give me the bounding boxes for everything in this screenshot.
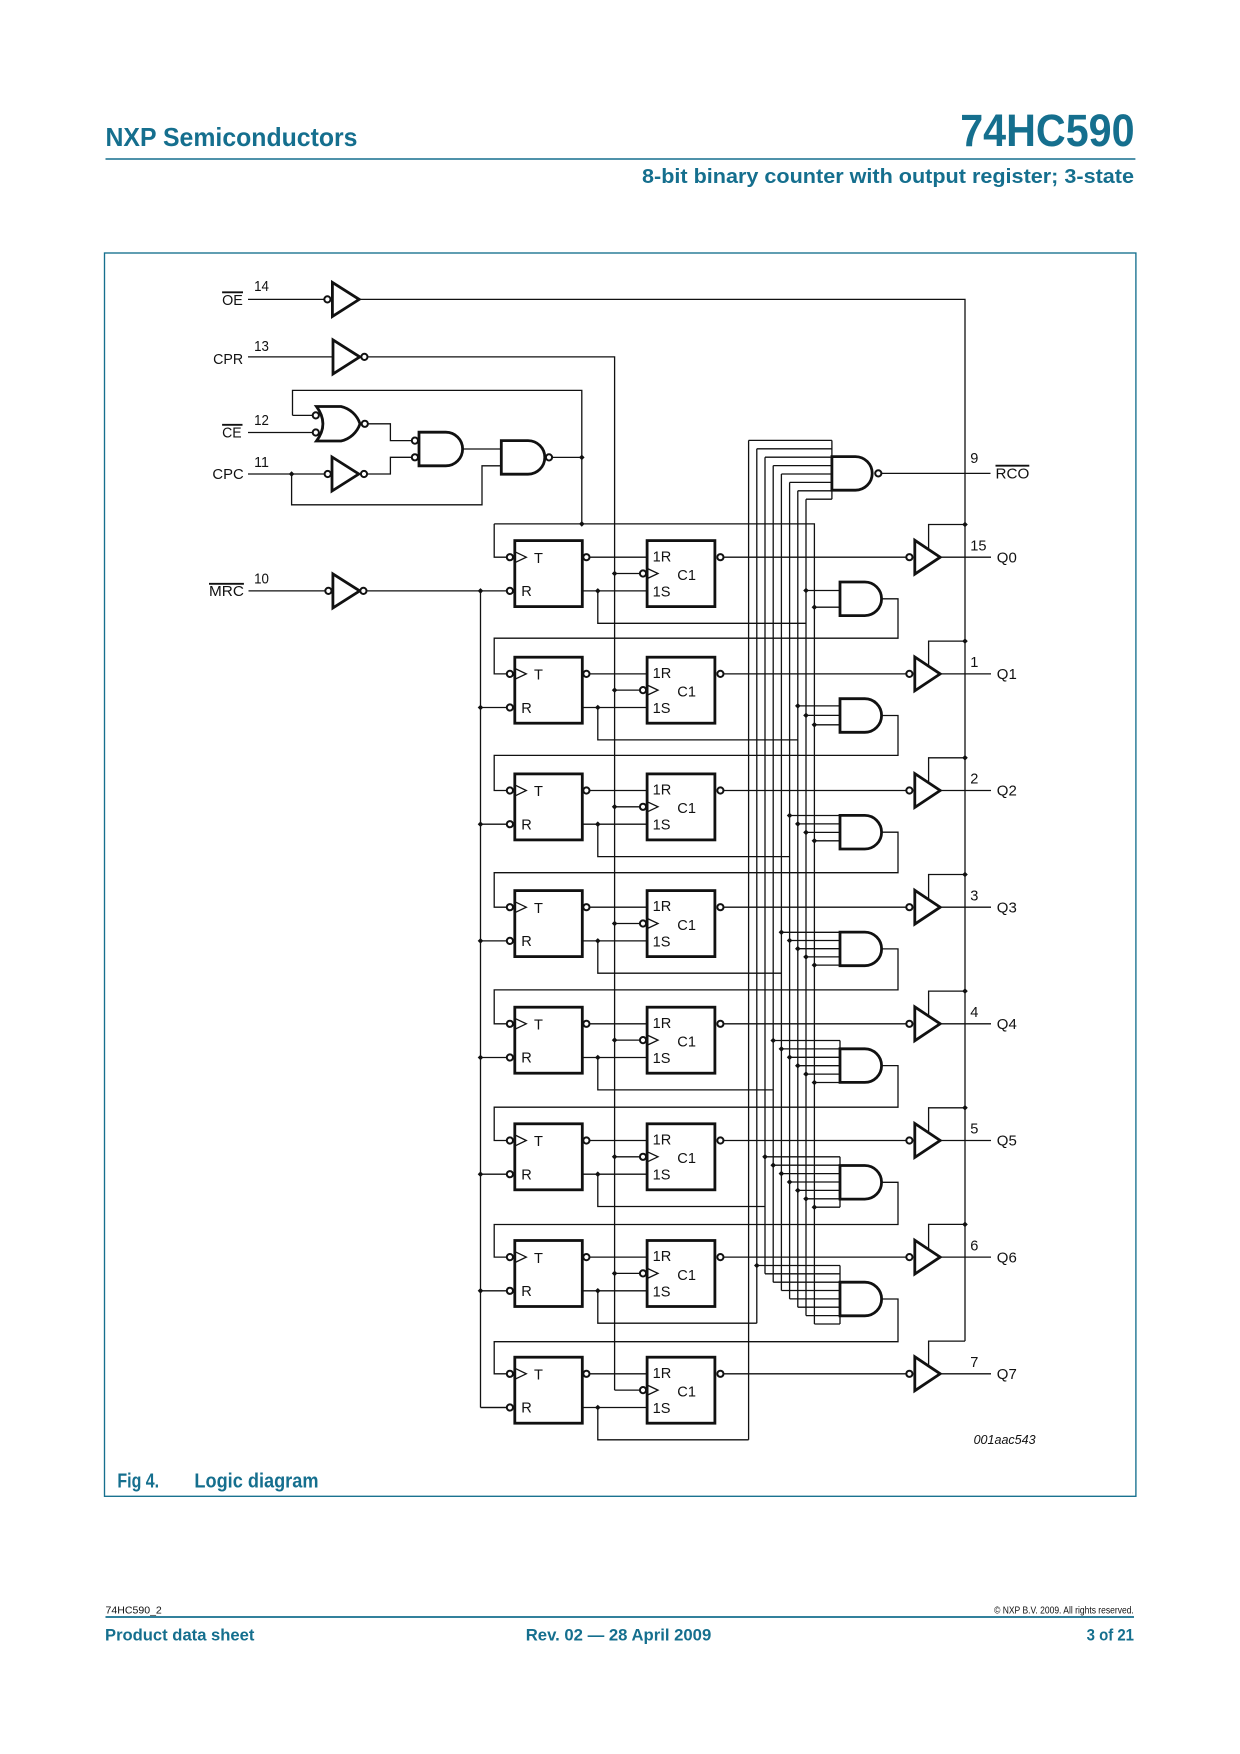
- svg-text:4: 4: [970, 1005, 978, 1021]
- latch L3: [647, 891, 715, 957]
- wire OE input: [248, 298, 324, 300]
- wire FF1 Q to latch 1S: [582, 707, 647, 709]
- wire AND3 output to FF4 T: [494, 949, 898, 1024]
- latch L7 clock wedge: [647, 1385, 658, 1395]
- latch L5 clock bubble: [640, 1154, 646, 1160]
- wire AND0 output to FF1 T: [494, 599, 898, 674]
- latch L4: [647, 1007, 715, 1073]
- wire FF4 Q to bus Q4: [598, 1058, 773, 1090]
- flip-flop FF3: [515, 891, 583, 957]
- output buffer B1 input bubble: [906, 671, 912, 677]
- FF3 clock wedge: [515, 902, 526, 913]
- bus Q2 vertical: [789, 482, 791, 1299]
- junction Q1 bus AND1: [795, 703, 801, 709]
- wire MRC rail to FF3 R: [481, 940, 507, 942]
- flip-flop FF4: [515, 1007, 583, 1073]
- latch L4 clock wedge: [647, 1035, 658, 1045]
- wire MRC input: [249, 590, 325, 592]
- wire AND2 input Q0: [806, 831, 840, 833]
- latch L0: [647, 541, 715, 607]
- svg-text:C1: C1: [677, 685, 696, 701]
- FF2 Qbar output bubble: [583, 787, 589, 793]
- latch L7: [647, 1357, 715, 1423]
- FF4 Qbar output bubble: [583, 1021, 589, 1027]
- wire Q6 to RCO gate: [757, 448, 832, 450]
- wire AND4 input CLK: [814, 1082, 840, 1084]
- svg-text:Q0: Q0: [997, 550, 1017, 566]
- wire gated clock T0 line: [494, 524, 814, 1324]
- svg-text:11: 11: [254, 455, 269, 471]
- latch L1 output bubble: [717, 671, 723, 677]
- wire AND5 input Q3: [781, 1173, 840, 1175]
- junction CLK bus AND3: [812, 962, 818, 968]
- svg-text:CPR: CPR: [213, 352, 243, 368]
- junction Q1 bus AND3: [795, 946, 801, 952]
- latch L3 clock wedge: [647, 919, 658, 929]
- wire MRC rail to FF4 R: [481, 1057, 507, 1059]
- svg-text:T: T: [534, 901, 543, 917]
- wire CPR rail to L0 clock: [615, 573, 640, 575]
- wire MRC rail to FF5 R: [481, 1173, 507, 1175]
- wire FF7 Qbar to latch 1R: [590, 1373, 647, 1375]
- svg-text:C1: C1: [677, 801, 696, 817]
- FF7 T input bubble: [507, 1371, 513, 1377]
- FF0 T input bubble: [507, 554, 513, 560]
- RCO overbar: [996, 465, 1030, 467]
- junction FF6 Q: [595, 1288, 601, 1294]
- wire CPR rail to L2 clock: [615, 806, 640, 808]
- latch L5 output bubble: [717, 1137, 723, 1143]
- wire AND6 input Q5: [765, 1273, 840, 1275]
- inverter CPC input bubble: [325, 471, 331, 477]
- latch L0 clock wedge: [647, 569, 658, 579]
- FF1 T input bubble: [507, 671, 513, 677]
- nor gate U1 input bubble B: [313, 429, 319, 435]
- wire AND3 input Q3: [781, 931, 840, 933]
- wire FF2 Q to latch 1S: [582, 823, 647, 825]
- junction Q1 bus AND4: [795, 1063, 801, 1069]
- svg-text:T: T: [534, 551, 543, 567]
- wire CPC inverter out to AND: [368, 457, 412, 474]
- latch L4 clock bubble: [640, 1037, 646, 1043]
- MRC overbar: [209, 583, 244, 585]
- svg-text:1S: 1S: [653, 934, 671, 950]
- wire Q2 to RCO gate: [790, 481, 832, 483]
- wire Q4 to RCO gate: [773, 465, 832, 467]
- svg-text:CE: CE: [222, 425, 242, 441]
- svg-text:T: T: [534, 1134, 543, 1150]
- junction T0 line: [579, 521, 585, 527]
- carry AND5 input manifold: [839, 1157, 841, 1207]
- and gate U2 input bubble A: [412, 438, 418, 444]
- junction MRC rail top: [478, 588, 484, 594]
- svg-text:1: 1: [970, 655, 978, 671]
- FF0 R input bubble: [507, 588, 513, 594]
- output buffer B0 input bubble: [906, 554, 912, 560]
- FF0 clock wedge: [515, 552, 526, 563]
- wire FF5 Q to latch 1S: [582, 1173, 647, 1175]
- junction CLK bus AND2: [812, 838, 818, 844]
- wire FF6 Q to bus Q6: [598, 1291, 757, 1323]
- FF2 R input bubble: [507, 821, 513, 827]
- wire OE enable to buffer B4: [929, 991, 965, 1016]
- flip-flop FF7: [515, 1357, 583, 1423]
- bus Q7 vertical: [748, 440, 750, 1439]
- svg-text:12: 12: [254, 413, 269, 429]
- svg-text:1S: 1S: [653, 584, 671, 600]
- wire latch L7 to output buffer: [724, 1373, 906, 1375]
- wire AND0 input Q0: [806, 590, 840, 592]
- svg-text:R: R: [521, 1167, 532, 1183]
- wire FF4 Q to latch 1S: [582, 1057, 647, 1059]
- svg-text:© NXP B.V. 2009. All rights re: © NXP B.V. 2009. All rights reserved.: [994, 1605, 1134, 1617]
- output buffer B2: [915, 774, 940, 808]
- wire CPR rail to L3 clock: [615, 923, 640, 925]
- wire latch L4 to output buffer: [724, 1023, 906, 1025]
- and gate AND1: [840, 699, 882, 733]
- latch L7 output bubble: [717, 1371, 723, 1377]
- wire latch L1 to output buffer: [724, 673, 906, 675]
- FF5 Qbar output bubble: [583, 1137, 589, 1143]
- inverter MRC input bubble: [325, 588, 331, 594]
- junction FF2 Q: [595, 821, 601, 827]
- junction MRC rail FF6 R: [478, 1288, 484, 1294]
- wire AND5 input Q5: [765, 1156, 840, 1158]
- FF2 clock wedge: [515, 785, 526, 796]
- junction CPR rail L6: [612, 1271, 618, 1277]
- wire OE enable to buffer B6: [929, 1224, 965, 1249]
- svg-text:T: T: [534, 1018, 543, 1034]
- wire AND1 input Q0: [806, 714, 840, 716]
- wire OE buffer to enable rail: [359, 299, 965, 1341]
- wire AND4 input Q3: [781, 1048, 840, 1050]
- and gate U2: [419, 432, 463, 466]
- output buffer B5: [915, 1124, 940, 1158]
- wire OE enable to buffer B5: [929, 1108, 965, 1132]
- svg-text:OE: OE: [222, 293, 243, 309]
- junction MRC rail FF2 R: [478, 821, 484, 827]
- wire Q5 to RCO gate: [765, 456, 832, 458]
- wire AND4 input Q1: [798, 1065, 840, 1067]
- latch L2: [647, 774, 715, 840]
- wire AND5 output to FF6 T: [494, 1182, 898, 1257]
- wire clock node down: [581, 457, 583, 524]
- junction FF3 Q: [595, 938, 601, 944]
- junction CPR rail L1: [612, 687, 618, 693]
- output buffer B3: [915, 890, 940, 924]
- junction Q3 bus AND4: [779, 1046, 785, 1052]
- latch L5: [647, 1124, 715, 1190]
- svg-text:CPC: CPC: [212, 467, 243, 483]
- wire AND2 input Q2: [790, 815, 840, 817]
- wire Q3 output: [940, 906, 991, 908]
- wire latch L0 to output buffer: [724, 556, 906, 558]
- and gate U2 input bubble B: [412, 454, 418, 460]
- wire MRC rail to FF1 R: [481, 707, 507, 709]
- and gate AND5: [840, 1166, 882, 1200]
- output buffer B3 input bubble: [906, 904, 912, 910]
- svg-text:C1: C1: [677, 918, 696, 934]
- svg-text:R: R: [521, 1284, 532, 1300]
- junction Q2 bus AND2: [787, 813, 793, 819]
- wire Q4 output: [940, 1023, 991, 1025]
- inverter CPR output bubble: [361, 354, 367, 360]
- wire MRC rail to FF7 R: [481, 1407, 507, 1409]
- wire CPR rail to L6 clock: [615, 1272, 640, 1274]
- junction CPR rail L0: [612, 571, 618, 577]
- junction Q1 bus AND2: [795, 821, 801, 827]
- buffer OE: [332, 282, 359, 316]
- svg-text:8-bit binary counter with outp: 8-bit binary counter with output registe…: [642, 166, 1134, 188]
- junction Q0 bus AND0: [803, 588, 809, 594]
- bus Q4 vertical: [772, 466, 774, 1283]
- svg-text:1R: 1R: [653, 1366, 672, 1382]
- wire FF2 Q to bus Q2: [598, 824, 790, 856]
- FF5 T input bubble: [507, 1137, 513, 1143]
- wire NAND out to clock node: [553, 456, 582, 458]
- wire CPR rail to L4 clock: [615, 1039, 640, 1041]
- nor gate U1 input bubble A: [313, 412, 319, 418]
- svg-text:9: 9: [970, 451, 978, 467]
- junction CPR rail L5: [612, 1154, 618, 1160]
- FF1 clock wedge: [515, 669, 526, 680]
- wire RCO output: [882, 472, 991, 474]
- output buffer B6 input bubble: [906, 1254, 912, 1260]
- and gate AND3: [840, 932, 882, 966]
- svg-text:14: 14: [254, 279, 269, 295]
- footer rule: [106, 1616, 1135, 1618]
- and gate AND2: [840, 815, 882, 849]
- wire FF3 Qbar to latch 1R: [590, 906, 647, 908]
- FF3 Qbar output bubble: [583, 904, 589, 910]
- junction OE rail B4: [962, 988, 968, 994]
- FF3 T input bubble: [507, 904, 513, 910]
- FF4 T input bubble: [507, 1021, 513, 1027]
- junction Q3 bus AND3: [779, 930, 785, 936]
- svg-text:T: T: [534, 1251, 543, 1267]
- svg-text:R: R: [521, 584, 532, 600]
- wire NOR out to AND: [368, 424, 411, 441]
- latch L1 clock wedge: [647, 685, 658, 695]
- wire OE enable to buffer B1: [929, 641, 965, 666]
- svg-text:RCO: RCO: [996, 467, 1030, 483]
- junction CPC: [289, 471, 295, 477]
- wire AND6 input CLK: [814, 1323, 840, 1325]
- wire FF6 Qbar to latch 1R: [590, 1256, 647, 1258]
- svg-text:74HC590: 74HC590: [960, 105, 1134, 156]
- wire AND6 input Q6: [757, 1265, 840, 1267]
- latch L0 output bubble: [717, 554, 723, 560]
- wire Q0 to RCO gate: [806, 498, 832, 500]
- junction CLK bus AND0: [812, 604, 818, 610]
- svg-text:C1: C1: [677, 1268, 696, 1284]
- junction Q6 bus AND6: [754, 1263, 760, 1269]
- junction Q0 bus AND4: [803, 1071, 809, 1077]
- flip-flop FF2: [515, 774, 583, 840]
- svg-text:Q5: Q5: [997, 1134, 1017, 1150]
- wire feedback to NOR: [293, 390, 582, 457]
- svg-text:C1: C1: [677, 1035, 696, 1051]
- nand gate U4 output bubble: [875, 470, 881, 476]
- wire Q5 output: [940, 1140, 991, 1142]
- nor gate U1 output bubble: [362, 421, 368, 427]
- svg-text:T: T: [534, 784, 543, 800]
- wire AND2 input Q1: [798, 823, 840, 825]
- svg-text:Product data sheet: Product data sheet: [105, 1625, 255, 1644]
- wire FF2 Qbar to latch 1R: [590, 790, 647, 792]
- svg-text:1S: 1S: [653, 818, 671, 834]
- wire AND5 input Q2: [790, 1181, 840, 1183]
- junction CPR rail L3: [612, 921, 618, 927]
- bus Q3 vertical: [780, 474, 782, 1291]
- wire AND3 input Q2: [790, 940, 840, 942]
- wire Q6 output: [940, 1256, 991, 1258]
- svg-text:T: T: [534, 1368, 543, 1384]
- svg-text:1R: 1R: [653, 1133, 672, 1149]
- wire AND4 input Q0: [806, 1073, 840, 1075]
- FF2 T input bubble: [507, 787, 513, 793]
- wire Q2 output: [940, 790, 991, 792]
- wire AND3 input CLK: [814, 964, 840, 966]
- wire CPR rail to L7 clock: [615, 1389, 640, 1391]
- svg-text:Q1: Q1: [997, 667, 1017, 683]
- svg-text:T: T: [534, 668, 543, 684]
- svg-text:1S: 1S: [653, 701, 671, 717]
- carry AND4 input manifold: [839, 1041, 841, 1083]
- svg-text:1R: 1R: [653, 1249, 672, 1265]
- wire FF1 Q to bus Q1: [598, 708, 798, 740]
- junction Q0 bus AND3: [803, 954, 809, 960]
- wire CPR rail to L5 clock: [615, 1156, 640, 1158]
- wire AND6 input Q0: [806, 1315, 840, 1317]
- svg-text:001aac543: 001aac543: [974, 1432, 1037, 1447]
- wire NOR feedback upper input: [293, 414, 313, 416]
- wire OE enable to buffer B7: [929, 1341, 965, 1366]
- svg-text:74HC590_2: 74HC590_2: [106, 1605, 162, 1617]
- wire T0 drop to FF0: [494, 524, 506, 557]
- svg-text:1S: 1S: [653, 1284, 671, 1300]
- latch L0 clock bubble: [640, 570, 646, 576]
- wire CPC input: [248, 473, 324, 475]
- wire AND1 output to FF2 T: [494, 716, 898, 791]
- wire AND1 input CLK: [814, 724, 840, 726]
- wire Q7 output: [940, 1373, 991, 1375]
- output buffer B5 input bubble: [906, 1137, 912, 1143]
- wire AND2 input CLK: [814, 840, 840, 842]
- junction Q1 bus AND5: [795, 1188, 801, 1194]
- junction FF1 Q: [595, 705, 601, 711]
- svg-text:1R: 1R: [653, 666, 672, 682]
- svg-text:3: 3: [970, 888, 978, 904]
- junction OE rail B3: [962, 872, 968, 878]
- nand gate U3: [501, 441, 545, 475]
- svg-text:7: 7: [970, 1355, 978, 1371]
- wire FF0 Q to bus Q0: [598, 591, 806, 623]
- FF4 clock wedge: [515, 1018, 526, 1029]
- bus Q0 vertical: [805, 499, 807, 1315]
- FF3 R input bubble: [507, 938, 513, 944]
- wire AND0 input CLK: [814, 606, 840, 608]
- junction Q0 bus AND1: [803, 713, 809, 719]
- wire latch L2 to output buffer: [724, 790, 906, 792]
- svg-text:13: 13: [254, 339, 269, 355]
- wire AND4 input Q2: [790, 1056, 840, 1058]
- wire AND6 input Q3: [781, 1290, 840, 1292]
- svg-text:Q2: Q2: [997, 784, 1017, 800]
- wire AND6 input Q4: [773, 1281, 840, 1283]
- wire AND4 output to FF5 T: [494, 1066, 898, 1141]
- junction Q2 bus AND4: [787, 1055, 793, 1061]
- wire MRC rail to FF6 R: [481, 1290, 507, 1292]
- FF7 R input bubble: [507, 1404, 513, 1410]
- FF0 Qbar output bubble: [583, 554, 589, 560]
- wire MRC rail to FF7 R: [481, 1407, 507, 1409]
- svg-text:1S: 1S: [653, 1401, 671, 1417]
- junction OE rail B2: [962, 755, 968, 761]
- junction CPR rail L2: [612, 804, 618, 810]
- wire CPR input: [248, 356, 333, 358]
- junction Q3 bus AND5: [779, 1171, 785, 1177]
- svg-text:1R: 1R: [653, 1016, 672, 1032]
- CE overbar: [222, 424, 242, 426]
- output buffer B4 input bubble: [906, 1021, 912, 1027]
- junction CLK bus AND5: [812, 1204, 818, 1210]
- wire MRC rail to FF2 R: [481, 823, 507, 825]
- svg-text:C1: C1: [677, 568, 696, 584]
- nand gate U3 output bubble: [546, 454, 552, 460]
- svg-text:MRC: MRC: [209, 584, 244, 600]
- latch L5 clock wedge: [647, 1152, 658, 1162]
- latch L3 clock bubble: [640, 920, 646, 926]
- svg-text:1S: 1S: [653, 1051, 671, 1067]
- svg-text:Q4: Q4: [997, 1017, 1017, 1033]
- carry AND6 input manifold: [839, 1266, 841, 1325]
- junction OE rail B0: [962, 522, 968, 528]
- wire FF3 Q to bus Q3: [598, 941, 782, 973]
- wire MRC to FF0 R: [367, 590, 506, 592]
- junction FF7 Q: [595, 1405, 601, 1411]
- FF7 clock wedge: [515, 1368, 526, 1379]
- junction Q0 bus AND2: [803, 830, 809, 836]
- output buffer B2 input bubble: [906, 787, 912, 793]
- junction MRC rail FF4 R: [478, 1055, 484, 1061]
- svg-text:R: R: [521, 1051, 532, 1067]
- wire AND5 input Q1: [798, 1189, 840, 1191]
- latch L1: [647, 657, 715, 723]
- wire latch L6 to output buffer: [724, 1256, 906, 1258]
- OE overbar: [222, 291, 243, 293]
- wire AND5 input Q4: [773, 1164, 840, 1166]
- junction clock node: [579, 455, 585, 461]
- latch L1 clock bubble: [640, 687, 646, 693]
- wire AND3 input Q1: [798, 948, 840, 950]
- svg-text:NXP Semiconductors: NXP Semiconductors: [106, 124, 358, 152]
- FF6 clock wedge: [515, 1252, 526, 1263]
- inverter CPC output bubble: [361, 471, 367, 477]
- junction Q2 bus AND5: [787, 1179, 793, 1185]
- svg-text:3 of 21: 3 of 21: [1087, 1625, 1134, 1644]
- junction OE rail B6: [962, 1222, 968, 1228]
- svg-text:Q6: Q6: [997, 1250, 1017, 1266]
- inverter OE input bubble: [324, 296, 330, 302]
- latch L7 clock bubble: [640, 1387, 646, 1393]
- FF6 R input bubble: [507, 1288, 513, 1294]
- svg-text:10: 10: [254, 571, 269, 587]
- FF5 R input bubble: [507, 1171, 513, 1177]
- junction OE rail B1: [962, 638, 968, 644]
- output buffer B7 input bubble: [906, 1371, 912, 1377]
- bus Q6 vertical: [756, 449, 758, 1323]
